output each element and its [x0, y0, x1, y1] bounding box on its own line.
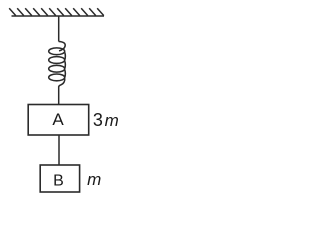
svg-text:3: 3 [93, 110, 103, 130]
svg-text:m: m [87, 170, 101, 189]
svg-text:m: m [105, 111, 119, 130]
svg-text:A: A [52, 110, 64, 129]
svg-text:B: B [53, 173, 64, 190]
